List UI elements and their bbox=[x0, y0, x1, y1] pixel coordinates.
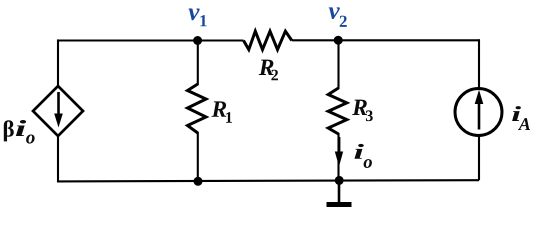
wire R3 branch upper stub bbox=[337, 40, 339, 89]
arrow inside iA source (points up) bbox=[475, 90, 484, 130]
label R1 bbox=[211, 101, 232, 122]
label R2 bbox=[259, 60, 278, 81]
label i_o bbox=[354, 144, 371, 168]
label R3 bbox=[352, 100, 373, 122]
node v1 junction dot bbox=[193, 36, 202, 45]
node label v2 bbox=[329, 7, 347, 27]
wire top between R2 and v2 bbox=[292, 39, 339, 41]
wire left vertical lower bbox=[57, 135, 59, 181]
arrow inside dependent source (points down) bbox=[54, 92, 63, 128]
current source iA circle bbox=[455, 89, 502, 136]
wire bottom bbox=[58, 180, 479, 181]
wire left vertical upper bbox=[57, 39, 59, 87]
wire R1 branch upper stub bbox=[197, 41, 199, 86]
current source (dependent) diamond bbox=[33, 86, 83, 136]
node bottom-left junction dot bbox=[194, 177, 203, 186]
wire R3 branch lower with current direction bbox=[337, 133, 339, 181]
label beta i_o bbox=[4, 120, 35, 144]
wire top left (v1 to left corner) bbox=[58, 39, 198, 41]
node label v1 bbox=[189, 9, 207, 27]
resistor R3 bbox=[328, 88, 347, 134]
node bottom-right junction dot (ground node) bbox=[335, 176, 344, 185]
ground bbox=[327, 181, 352, 205]
node v2 junction dot bbox=[334, 36, 343, 45]
wire right vertical lower bbox=[478, 135, 480, 180]
arrow i_o on wire (points down) bbox=[335, 137, 343, 167]
wire R1 branch lower stub bbox=[197, 132, 199, 182]
wire right vertical upper bbox=[478, 39, 480, 89]
wire top right (v2 to right corner) bbox=[339, 39, 480, 41]
resistor R2 bbox=[244, 31, 292, 49]
wire top between v1 and R2 bbox=[198, 39, 244, 41]
resistor R1 bbox=[188, 84, 207, 133]
label i_A bbox=[512, 106, 530, 130]
